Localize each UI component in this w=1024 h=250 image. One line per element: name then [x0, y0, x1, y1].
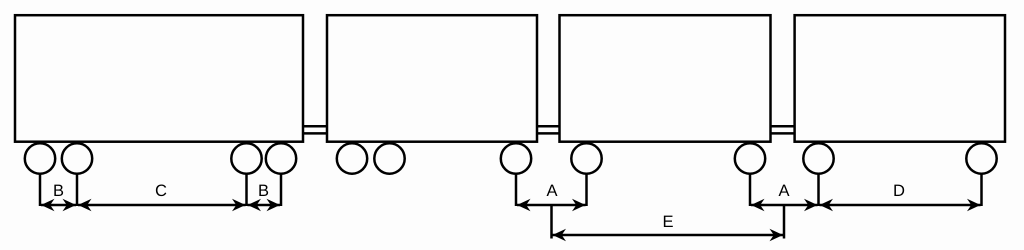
dimension C shaft [78, 204, 246, 207]
dimension E extension vertical left [550, 205, 553, 239]
dimension C right arrowhead [232, 199, 246, 211]
coupler wagon3-wagon4 lower line [771, 132, 795, 135]
wheel 10 wagon4 left axle [803, 143, 833, 173]
wheel 3 wagon1 right bogie [231, 143, 261, 173]
coupler wagon1-wagon2 upper line [303, 125, 327, 128]
leader line wheel 1 [39, 174, 42, 206]
dimension B1 right arrowhead [63, 199, 77, 211]
wagon body 2 [327, 15, 537, 142]
dimension E left arrowhead [553, 229, 567, 241]
leader line wheel 4 [280, 174, 283, 206]
wheel 5 wagon2 left bogie [337, 143, 367, 173]
leader line wheel 3 [245, 174, 248, 206]
coupler wagon3-wagon4 upper line [771, 125, 795, 128]
dimension A2 shaft [751, 204, 818, 207]
dimension D shaft [820, 204, 981, 207]
dimension A2 right arrowhead [804, 199, 818, 211]
wagon body 4 [795, 15, 1005, 142]
coupler wagon2-wagon3 lower line [537, 132, 560, 135]
wheel 1 wagon1 left bogie [25, 143, 55, 173]
label A1 "A" [547, 185, 558, 196]
leader line wheel 11 [980, 174, 983, 206]
dimension B1 shaft [41, 204, 76, 207]
label A2 "A" [779, 185, 790, 196]
dimension A1 shaft [517, 204, 586, 207]
dimension D left arrowhead [820, 199, 834, 211]
leader line wheel 10 [817, 174, 820, 206]
dimension E extension vertical right [783, 205, 786, 239]
dimension A2 left arrowhead [751, 199, 765, 211]
label B1 "B" [54, 185, 63, 196]
dimension E right arrowhead [770, 229, 784, 241]
wheel 7 wagon2 right axle [501, 143, 531, 173]
wagon body 3 [560, 15, 771, 142]
dimension A1 right arrowhead [572, 199, 586, 211]
wheel 9 wagon3 right axle [735, 143, 765, 173]
leader line wheel 8 [585, 174, 588, 206]
label E "E" [664, 216, 673, 227]
wagon body 1 [15, 15, 303, 142]
wheel 11 wagon4 right axle [966, 143, 996, 173]
coupler wagon2-wagon3 upper line [537, 125, 560, 128]
dimension B1 left arrowhead [41, 199, 55, 211]
leader line wheel 9 [749, 174, 752, 206]
label D "D" [894, 185, 904, 196]
wheel 2 wagon1 left bogie [62, 143, 92, 173]
dimension B2 left arrowhead [248, 199, 262, 211]
label B2 "B" [259, 185, 268, 196]
leader line wheel 7 [515, 174, 518, 206]
wheel 4 wagon1 right bogie [266, 143, 296, 173]
dimension B2 shaft [248, 204, 281, 207]
dimension D right arrowhead [967, 199, 981, 211]
wheel 6 wagon2 left bogie [374, 143, 404, 173]
label C "C" [156, 184, 166, 196]
dimension A1 left arrowhead [517, 199, 531, 211]
dimension B2 right arrowhead [267, 199, 281, 211]
wheel 8 wagon3 left axle [571, 143, 601, 173]
leader line wheel 2 [76, 174, 79, 206]
coupler wagon1-wagon2 lower line [303, 132, 327, 135]
dimension E shaft [553, 234, 784, 237]
dimension C left arrowhead [78, 199, 92, 211]
